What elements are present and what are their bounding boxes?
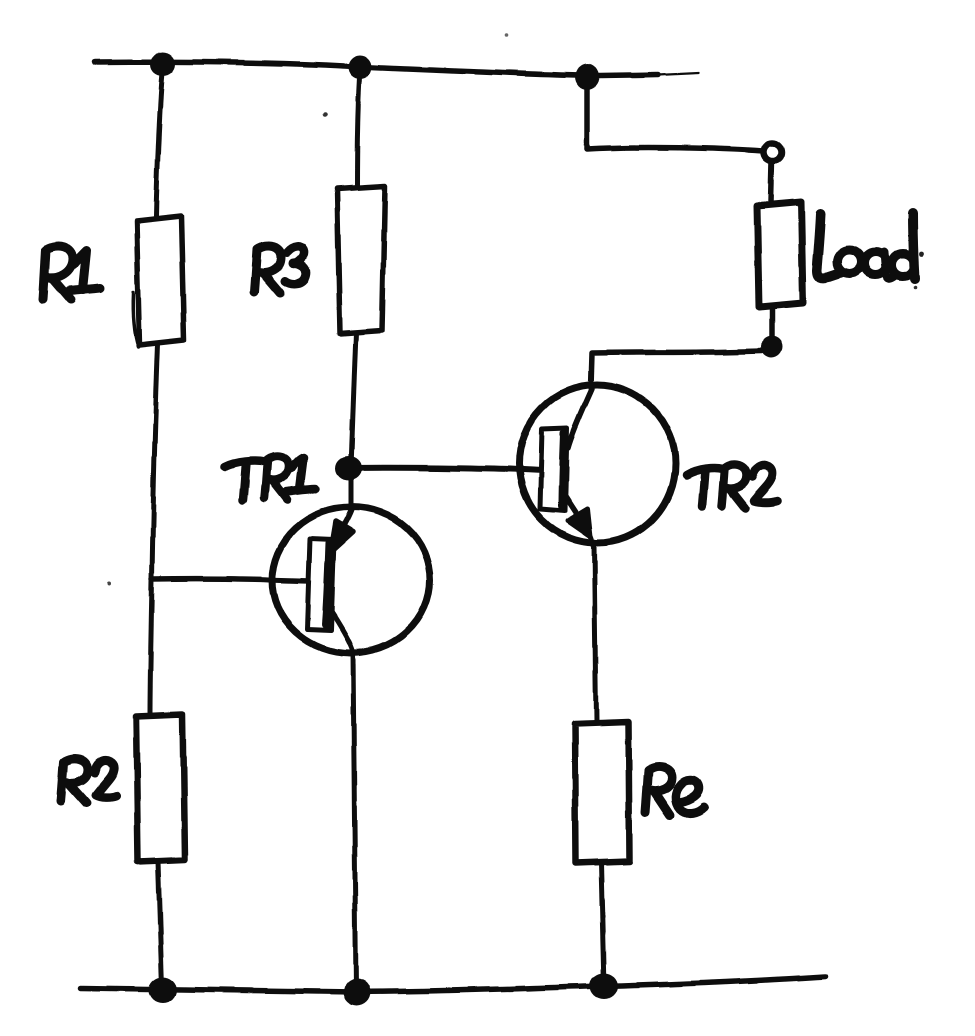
label R1 bbox=[43, 247, 100, 300]
terminal open circle bbox=[764, 143, 782, 161]
node bottom-middle junction dot bbox=[343, 978, 371, 1006]
label Load bbox=[817, 213, 915, 279]
label TR2 bbox=[686, 464, 777, 508]
transistor TR1 bbox=[272, 507, 430, 653]
ink speck below d of Load bbox=[914, 286, 918, 290]
wire node to TR1 emitter bbox=[349, 468, 354, 507]
wire R1 to R2 with base tap bbox=[150, 344, 158, 715]
wire bottom rail bbox=[80, 976, 825, 992]
resistor Re bbox=[575, 722, 629, 863]
wire TR1 collector to bottom rail bbox=[331, 611, 356, 990]
node top-left junction dot bbox=[150, 52, 176, 76]
resistor R3 bbox=[337, 186, 385, 334]
resistor R2 bbox=[136, 714, 185, 862]
wire TR1 base bbox=[152, 579, 310, 581]
transistor TR2 bbox=[519, 385, 675, 545]
wire top rail to load terminal bbox=[587, 78, 764, 151]
node Load bottom junction dot bbox=[761, 336, 783, 358]
ink speck above top rail bbox=[505, 33, 509, 37]
wire TR2 emitter to Re bbox=[594, 545, 596, 722]
resistor Load bbox=[757, 202, 803, 307]
wire from top rail to R3 bbox=[357, 69, 360, 187]
node top-right junction dot bbox=[575, 64, 599, 90]
ink speck near R3 top bbox=[323, 112, 328, 117]
resistor R1 bbox=[133, 216, 184, 347]
label R3 bbox=[254, 246, 306, 293]
ink speck left of base wire bbox=[108, 581, 112, 585]
node top-middle junction dot bbox=[348, 55, 372, 79]
wire node to TR2 collector bbox=[591, 351, 762, 388]
wire R3 to node bbox=[351, 333, 356, 468]
wire R2 to bottom rail bbox=[158, 862, 162, 988]
wire top supply rail bbox=[95, 62, 699, 76]
label R2 bbox=[61, 758, 116, 803]
wire Re to bottom rail bbox=[601, 863, 604, 988]
wire terminal to Load bbox=[771, 161, 772, 202]
wire from top rail to R1 bbox=[156, 66, 163, 216]
wire Load to node bbox=[769, 307, 775, 337]
label Re bbox=[645, 766, 704, 815]
label TR1 bbox=[225, 456, 316, 500]
node bottom-left junction dot bbox=[149, 977, 177, 1003]
wire TR2 base bbox=[349, 468, 543, 471]
ink speck right of Load label bbox=[920, 252, 925, 257]
node bottom-right junction dot bbox=[590, 973, 618, 999]
node TR1/TR2 base junction dot bbox=[336, 456, 362, 480]
